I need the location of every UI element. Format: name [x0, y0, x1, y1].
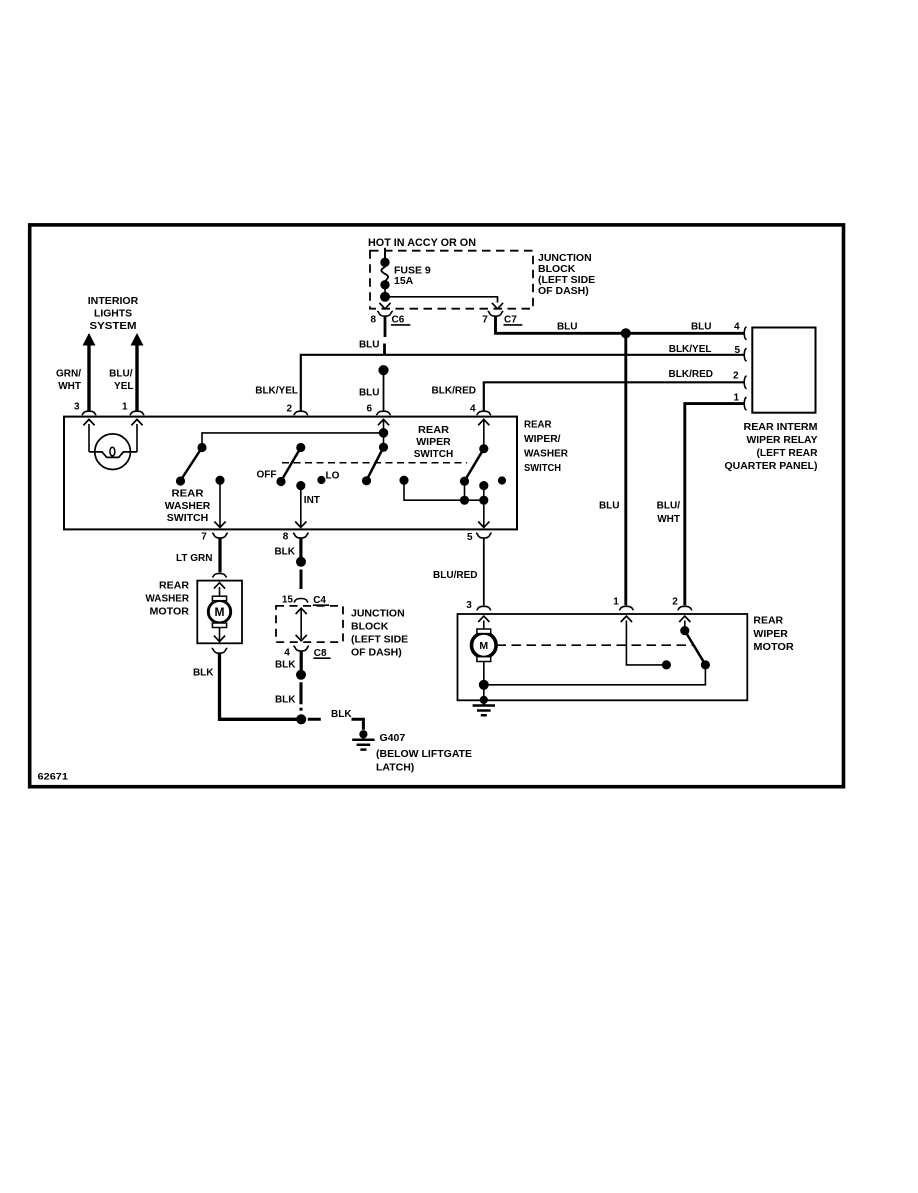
svg-text:BLOCK: BLOCK [538, 263, 576, 275]
svg-text:6: 6 [366, 404, 372, 415]
arrow down at pin 7 [214, 522, 225, 528]
fuse FUSE 9 15A [381, 258, 431, 288]
wire BLK washer motor to ground run [220, 654, 302, 720]
label JUNCTION BLOCK (LEFT SIDE OF DASH) top [538, 252, 595, 297]
svg-text:C6: C6 [392, 315, 405, 326]
node BLK splice below pin 8 [297, 558, 305, 566]
connector switch pin 6 [376, 411, 391, 415]
svg-text:4: 4 [734, 321, 740, 332]
svg-text:INTERIOR: INTERIOR [88, 295, 139, 307]
switch box rear wiper/washer switch [64, 417, 517, 530]
arrow up at pin 6 [378, 419, 389, 425]
connector wiper motor pin 2 [678, 606, 693, 610]
dashed link motor to switch lever [497, 644, 694, 646]
wire pin 1 riser to lamp [136, 424, 138, 452]
wire left contact to pin 5 riser [404, 480, 484, 500]
wire INT contact to pin 8 [300, 486, 302, 527]
arrow up at motor pin 1 [621, 616, 632, 622]
svg-text:BLU: BLU [359, 340, 380, 351]
wire contact down to pin 7 [219, 480, 221, 526]
svg-text:WHT: WHT [657, 514, 680, 525]
label REAR WIPER SWITCH inside [414, 425, 454, 460]
label REAR WASHER MOTOR [146, 581, 190, 618]
connector wiper motor pin 1 [619, 606, 634, 610]
svg-text:REAR: REAR [753, 616, 784, 627]
wire lever contact to motor bottom [484, 665, 706, 685]
connector switch pin 4 [477, 411, 492, 415]
wiper switch lever A contact [297, 444, 305, 452]
svg-text:WIPER: WIPER [753, 629, 788, 640]
lamp illumination bulb [89, 434, 137, 470]
svg-text:WASHER: WASHER [146, 594, 190, 605]
wire BLU from C7 to relay pin 4 [496, 317, 745, 334]
wire junction to C7 drop [385, 297, 498, 303]
svg-text:3: 3 [74, 402, 80, 413]
svg-text:BLK/RED: BLK/RED [669, 369, 713, 380]
connector relay pin 1 [744, 397, 746, 410]
washer motor box [197, 581, 242, 644]
connector C4 pin 15 [282, 595, 329, 606]
ground G407 [352, 730, 374, 750]
connector switch pin 5 [476, 533, 492, 538]
svg-text:REAR: REAR [172, 489, 205, 500]
label REAR WIPER MOTOR [753, 616, 794, 654]
contact INT [297, 482, 305, 490]
svg-text:BLU/: BLU/ [657, 501, 681, 512]
connector C8 pin 4 [284, 646, 330, 659]
contact to switch pin 7 [216, 476, 224, 484]
svg-text:1: 1 [733, 392, 739, 403]
arrow double inside junction block [296, 608, 307, 641]
gang dashed line [282, 462, 467, 464]
arrow up at motor pin 2 [679, 616, 690, 622]
svg-text:LIGHTS: LIGHTS [94, 308, 132, 320]
svg-text:M: M [479, 640, 488, 652]
svg-text:7: 7 [482, 314, 488, 325]
node BLK splice mid [297, 671, 305, 679]
connector switch pin 8 [293, 533, 309, 538]
svg-text:2: 2 [733, 370, 739, 381]
svg-text:15A: 15A [394, 275, 414, 287]
wire fuse to junction node [384, 288, 386, 293]
svg-text:(BELOW LIFTGATE: (BELOW LIFTGATE [376, 748, 472, 760]
svg-text:REAR: REAR [418, 425, 450, 436]
wiper switch lever B contact [380, 443, 388, 451]
svg-text:C8: C8 [314, 648, 327, 659]
wire pin 4 riser into box [483, 419, 485, 449]
svg-text:OF DASH): OF DASH) [351, 646, 402, 658]
connector switch pin 2 [294, 411, 309, 415]
svg-text:2: 2 [286, 404, 292, 415]
contact below lever B [363, 477, 371, 485]
wire lever C contact down [464, 481, 466, 500]
wire BLK/YEL switch pin 2 to relay pin 5 [301, 355, 745, 411]
svg-text:SWITCH: SWITCH [414, 449, 454, 460]
svg-text:BLU: BLU [359, 388, 380, 399]
connector switch pin 3 [82, 411, 97, 415]
arrow up at motor pin 3 [478, 616, 489, 622]
svg-text:8: 8 [283, 531, 289, 542]
svg-text:BLK: BLK [275, 694, 296, 705]
arrow up at pin 3 [83, 419, 94, 425]
wire pin 3 to motor brush [483, 621, 485, 630]
contact unused right [499, 477, 506, 484]
svg-text:1: 1 [122, 402, 128, 413]
node motor ground junction [480, 681, 488, 689]
wire BLU/RED pin 5 to motor pin 3 [483, 538, 485, 605]
node fuse output junction [381, 293, 389, 301]
connector wiper motor pin 3 [477, 606, 492, 610]
wire to washer motor brush [219, 587, 221, 597]
node washer line junction on pin 6 riser [380, 429, 388, 437]
svg-text:(LEFT REAR: (LEFT REAR [757, 448, 819, 459]
svg-text:REAR: REAR [159, 581, 190, 592]
arrow to interior lights (BLU/YEL) [131, 333, 144, 411]
wire BLK pin 8 down [299, 538, 302, 557]
svg-text:YEL: YEL [114, 381, 133, 392]
svg-text:WIPER/: WIPER/ [524, 433, 561, 445]
wire BLU/WHT relay pin 1 down to motor pin 2 [685, 404, 745, 606]
contact above pin 5 [480, 482, 488, 490]
svg-text:INT: INT [304, 495, 320, 506]
svg-text:BLU/RED: BLU/RED [433, 570, 477, 581]
svg-text:MOTOR: MOTOR [753, 642, 794, 653]
wire BLK splice down [299, 682, 302, 710]
svg-text:WHT: WHT [58, 381, 81, 392]
connector relay pin 4 [744, 327, 746, 340]
wire splice to C4 [300, 570, 303, 590]
svg-text:WIPER: WIPER [416, 437, 451, 448]
rear washer switch contact top [198, 444, 206, 452]
arrow down at pin 5 [478, 522, 489, 528]
arrow up inside washer motor [214, 583, 225, 589]
wire BLU from C6 down [383, 317, 386, 354]
label REAR INTERM WIPER RELAY (LEFT REAR QUARTER PANEL) [725, 422, 819, 472]
connector washer motor top [212, 574, 227, 578]
wiper motor box [458, 614, 748, 700]
arrow up at pin 4 [478, 419, 489, 425]
svg-text:4: 4 [284, 647, 290, 658]
svg-text:7: 7 [201, 531, 207, 542]
node at y500 right [480, 496, 488, 504]
arrow down washer motor bottom [214, 636, 225, 642]
wiper switch lever A [281, 448, 301, 482]
svg-text:SWITCH: SWITCH [524, 462, 561, 474]
svg-text:LT GRN: LT GRN [176, 553, 212, 564]
washer motor M symbol [208, 596, 230, 627]
svg-text:HOT IN ACCY OR ON: HOT IN ACCY OR ON [368, 237, 476, 249]
svg-text:WASHER: WASHER [524, 448, 568, 460]
connector C6 pin 8 [370, 311, 410, 325]
svg-text:62671: 62671 [38, 771, 69, 782]
contact motor switch lower [702, 661, 710, 669]
arrow into C6 [379, 303, 390, 309]
wire motor bottom to ground [483, 662, 485, 698]
svg-text:SYSTEM: SYSTEM [90, 320, 137, 332]
contact pin 1 end [663, 661, 671, 669]
label REAR WIPER/WASHER SWITCH outside [524, 419, 568, 475]
contact left of lever C [400, 476, 408, 484]
svg-text:REAR: REAR [524, 419, 552, 431]
wire pin 1 down and right [626, 621, 662, 665]
contact OFF [277, 478, 285, 486]
svg-text:1: 1 [613, 596, 619, 607]
connector washer motor bottom [212, 648, 228, 653]
svg-text:SWITCH: SWITCH [167, 513, 209, 524]
label INTERIOR LIGHTS SYSTEM [88, 295, 139, 332]
svg-text:G407: G407 [380, 732, 406, 744]
label GRN/WHT [56, 368, 81, 392]
svg-text:MOTOR: MOTOR [150, 606, 190, 617]
svg-text:5: 5 [734, 345, 740, 356]
wiper motor M symbol [472, 629, 497, 662]
node BLK junction on ground run [297, 715, 306, 724]
wire LT GRN pin 7 to washer motor [218, 538, 221, 572]
ground wiper motor [473, 696, 495, 716]
contact motor switch pivot [681, 627, 689, 635]
border frame [30, 225, 844, 787]
wire BLK/RED switch pin 4 to relay pin 2 [484, 382, 745, 411]
label REAR WASHER SWITCH [165, 489, 211, 525]
rear washer switch wire to pin 6 riser [202, 433, 384, 448]
connector switch pin 7 [212, 533, 228, 538]
relay box REAR INTERM WIPER RELAY [752, 328, 815, 413]
wire BLK C8 down [300, 651, 303, 670]
svg-text:BLK: BLK [193, 667, 214, 678]
arrow down at pin 8 [295, 522, 306, 528]
connector C7 pin 7 [482, 311, 522, 325]
svg-text:M: M [215, 605, 225, 619]
contact below lever C [461, 477, 469, 485]
svg-text:WIPER RELAY: WIPER RELAY [747, 435, 818, 446]
junction block dashed box (lower) [276, 606, 343, 642]
svg-text:OF DASH): OF DASH) [538, 285, 589, 297]
svg-text:BLK/YEL: BLK/YEL [255, 386, 298, 397]
svg-text:GRN/: GRN/ [56, 368, 81, 379]
label JUNCTION BLOCK (LEFT SIDE OF DASH) lower [351, 608, 408, 659]
wiper switch lever C [465, 449, 484, 481]
node at y500 left [461, 496, 469, 504]
svg-text:BLU: BLU [691, 322, 712, 333]
label BLU/YEL [109, 368, 133, 392]
svg-text:8: 8 [370, 314, 376, 325]
svg-text:BLU: BLU [599, 501, 620, 512]
wire pin 3 riser to lamp [88, 424, 90, 452]
svg-text:2: 2 [672, 596, 678, 607]
wire stub above fuse [384, 248, 386, 259]
svg-text:WASHER: WASHER [165, 501, 211, 512]
svg-text:OFF: OFF [257, 469, 277, 480]
svg-text:15: 15 [282, 595, 294, 606]
label BLU/WHT vertical wire [657, 501, 681, 525]
wire washer motor to bottom [219, 628, 221, 641]
svg-text:LATCH): LATCH) [376, 761, 414, 773]
arrow into C7 [492, 303, 503, 309]
svg-text:5: 5 [467, 532, 473, 543]
svg-text:BLK: BLK [274, 546, 295, 557]
svg-text:LO: LO [326, 470, 340, 481]
svg-text:REAR INTERM: REAR INTERM [744, 422, 818, 433]
wire pin 6 riser into box [383, 419, 385, 447]
node BLU splice above switch pin 6 [379, 366, 388, 375]
connector switch pin 1 [130, 411, 145, 415]
svg-text:C4: C4 [313, 595, 326, 606]
node BLU junction [622, 329, 631, 338]
svg-text:JUNCTION: JUNCTION [538, 252, 592, 264]
rear washer switch contact bottom [177, 477, 185, 485]
svg-text:C7: C7 [504, 315, 517, 326]
svg-text:BLK: BLK [331, 709, 352, 720]
wiper switch lever C contact [480, 445, 488, 453]
motor park switch lever [685, 631, 706, 665]
svg-text:3: 3 [466, 600, 472, 611]
svg-text:QUARTER PANEL): QUARTER PANEL) [725, 461, 818, 472]
wiper switch lever B [367, 447, 384, 480]
arrow to interior lights (GRN/WHT) [83, 333, 96, 411]
contact LO [318, 477, 325, 484]
connector relay pin 5 [744, 348, 746, 361]
rear washer switch lever [181, 448, 203, 481]
svg-text:BLU/: BLU/ [109, 368, 133, 379]
junction block dashed box (top) [370, 251, 533, 309]
svg-text:JUNCTION: JUNCTION [351, 608, 405, 620]
connector relay pin 2 [744, 376, 746, 389]
wire contact down to pin 5 [483, 486, 485, 527]
svg-text:4: 4 [470, 403, 476, 414]
wire BLK dashed to ground [308, 719, 364, 730]
svg-text:BLK: BLK [275, 659, 296, 670]
arrow up at pin 1 [131, 419, 142, 425]
wire pin 2 down [684, 621, 686, 631]
label G407 (BELOW LIFTGATE LATCH) [376, 732, 472, 773]
wire BLU splice to pin 6 [383, 375, 385, 411]
svg-text:BLU: BLU [557, 321, 578, 332]
svg-text:BLK/RED: BLK/RED [432, 386, 476, 397]
svg-text:(LEFT SIDE: (LEFT SIDE [351, 634, 408, 646]
wire BLU junction down to motor pin 1 [624, 333, 627, 605]
svg-text:BLOCK: BLOCK [351, 621, 389, 633]
svg-text:BLK/YEL: BLK/YEL [669, 344, 712, 355]
